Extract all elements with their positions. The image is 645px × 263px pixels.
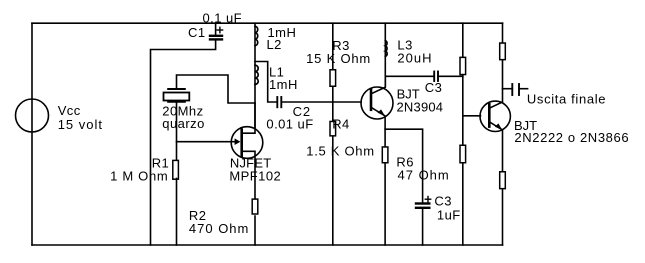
arrow Q1 emitter	[378, 109, 385, 116]
resistor R6	[382, 147, 388, 163]
wire R3/R4 vertical	[332, 23, 334, 245]
svg-text:20uH: 20uH	[397, 50, 432, 65]
JFET U1 drain segment	[242, 103, 255, 133]
wire branch from L1 top to C2	[255, 62, 277, 103]
wire bottom ground rail	[32, 244, 503, 246]
wire R1 to ground rail	[176, 179, 178, 246]
transistor Q1 emitter diagonal	[371, 107, 385, 146]
crystal X1 body	[164, 93, 190, 101]
svg-text:C1: C1	[188, 25, 206, 40]
wire top supply rail	[32, 22, 503, 24]
capacitor C output plates	[512, 84, 519, 95]
transistor Q2 base bar	[488, 104, 491, 126]
plus sign C3 bypass	[425, 197, 430, 202]
capacitor C3 coupling plates	[434, 72, 438, 82]
wire Re to ground	[502, 190, 504, 246]
inductor L3	[385, 41, 387, 57]
svg-text:quarzo: quarzo	[162, 116, 204, 131]
resistor R3	[330, 70, 336, 87]
svg-text:2N2222 o 2N3866: 2N2222 o 2N3866	[514, 130, 629, 145]
transistor Q2 body circle	[480, 101, 510, 131]
JFET U1 gate bar	[240, 130, 243, 156]
capacitor C3 bypass plates	[416, 204, 429, 208]
crystal X1 electrodes	[168, 89, 185, 102]
svg-text:0.01 uF: 0.01 uF	[266, 117, 313, 132]
plus sign C1	[217, 27, 222, 32]
svg-text:MPF102: MPF102	[229, 169, 281, 184]
svg-text:2N3904: 2N3904	[397, 100, 444, 115]
JFET U1 source segment	[242, 151, 255, 198]
svg-text:0.1 uF: 0.1 uF	[203, 11, 243, 26]
resistor R5 upper bias	[460, 57, 466, 74]
transistor Q2 collector diagonal	[489, 60, 502, 108]
wire R6 to ground	[384, 164, 386, 245]
svg-text:C3: C3	[434, 194, 452, 209]
transistor Q2 emitter diagonal	[489, 122, 502, 171]
wire crystal top link	[177, 75, 256, 103]
svg-text:Vcc: Vcc	[58, 103, 81, 118]
source Vcc	[16, 99, 49, 132]
resistor R4	[330, 121, 336, 135]
wire left vertical (Vcc branch)	[31, 23, 33, 245]
wire crystal bottom to gate node	[176, 102, 178, 160]
JFET U1 body circle	[231, 127, 263, 159]
wire Rc to top rail	[502, 23, 504, 42]
resistor Re emitter	[500, 172, 506, 189]
transistor Q1 body circle	[361, 87, 393, 119]
capacitor C1 plates	[210, 36, 222, 40]
resistor R2	[252, 199, 258, 214]
svg-text:470 Ohm: 470 Ohm	[189, 221, 249, 236]
wire R2 to ground	[254, 216, 256, 245]
arrow Q2 emitter	[495, 123, 502, 129]
wire main oscillator vertical	[254, 23, 256, 127]
wire collector node to C3 coupling	[385, 75, 434, 77]
wire emitter bypass branch	[385, 129, 423, 203]
svg-text:15 K Ohm: 15 K Ohm	[306, 51, 371, 66]
svg-text:C3: C3	[425, 80, 443, 95]
transistor Q1 collector diagonal	[371, 76, 385, 94]
transistor Q1 base bar	[370, 90, 373, 110]
wire bias divider vertical	[462, 23, 464, 245]
svg-text:1.5 K Ohm: 1.5 K Ohm	[306, 143, 374, 158]
wire C3 bypass to ground	[422, 208, 424, 245]
svg-text:1uF: 1uF	[437, 208, 461, 223]
svg-text:15 volt: 15 volt	[58, 117, 103, 132]
svg-text:1 M Ohm: 1 M Ohm	[110, 169, 168, 184]
svg-text:Uscita finale: Uscita finale	[527, 91, 606, 106]
svg-text:1mH: 1mH	[269, 77, 298, 92]
inductor L1	[255, 65, 258, 84]
wire C1 bottom lead to left drop	[151, 39, 216, 245]
wire gate lead	[177, 141, 237, 143]
arrow gate (points right)	[235, 138, 241, 145]
wire L3 / Q1 collector vertical	[384, 23, 386, 86]
resistor R7 lower bias	[460, 145, 466, 163]
wire C2 to Q1 base	[281, 101, 361, 103]
wire Q2 base lead	[463, 115, 481, 117]
inductor L2	[255, 26, 258, 46]
wire C1 top lead	[215, 23, 217, 34]
capacitor C2	[277, 97, 281, 107]
wire output lead	[519, 88, 528, 90]
resistor R1	[173, 160, 179, 179]
svg-text:47 Ohm: 47 Ohm	[398, 167, 450, 182]
wire C3 to bias line	[438, 75, 463, 77]
svg-text:R4: R4	[332, 117, 350, 132]
resistor Rc collector load	[500, 43, 506, 60]
svg-text:L2: L2	[267, 37, 282, 52]
wire output branch	[503, 88, 513, 90]
